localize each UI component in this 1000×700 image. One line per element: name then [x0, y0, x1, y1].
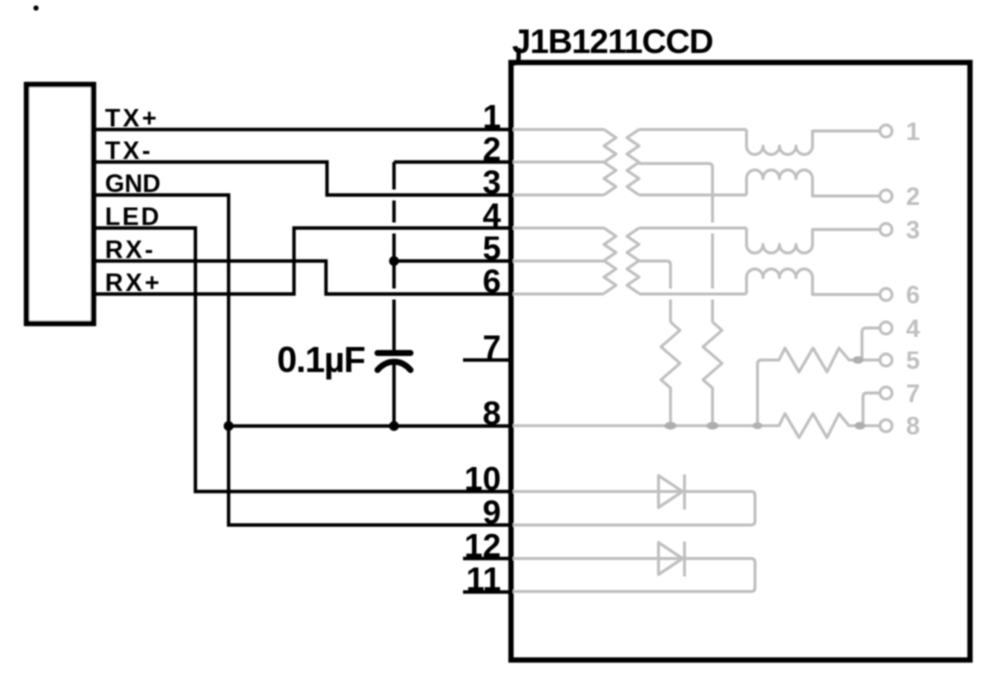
- capacitor C1 bottom curved plate: [378, 362, 411, 370]
- svg-text:11: 11: [466, 561, 501, 598]
- wire pin 2 branch: [394, 160, 512, 163]
- stray dot top-left: [33, 5, 38, 10]
- svg-text:10: 10: [464, 460, 501, 497]
- capacitor C1 0.1uF top plate: [378, 350, 411, 356]
- svg-text:1: 1: [483, 98, 501, 135]
- choke L1 top winding: [747, 130, 881, 155]
- transformer T2 primary leads: [513, 228, 604, 294]
- junction dot pin5 net: [389, 256, 399, 266]
- svg-text:J1B1211CCD: J1B1211CCD: [512, 23, 713, 61]
- svg-text:5: 5: [483, 230, 501, 267]
- terminal circle 2: [880, 190, 892, 202]
- module U1 border: [511, 63, 970, 661]
- transformer T2 secondary top lead: [639, 227, 747, 230]
- junction blob R3 feed: [753, 422, 763, 429]
- wire GND down to pin 9: [96, 195, 512, 525]
- capacitor C1 lower lead: [392, 364, 395, 426]
- terminal circle 4: [880, 322, 892, 334]
- junction blob R3 right: [853, 356, 864, 364]
- terminal circle 1: [880, 125, 892, 137]
- wire pin 11 stub: [463, 590, 512, 593]
- wire RX+ up to pin 4: [96, 228, 512, 294]
- svg-text:3: 3: [906, 217, 920, 245]
- transformer T1 secondary center tap to R2: [639, 164, 713, 323]
- terminal circle 7: [880, 387, 892, 399]
- resistor R3 branch to circle 4: [862, 328, 880, 360]
- diode D1 loop: [513, 492, 755, 526]
- terminal circle 3: [880, 224, 892, 236]
- svg-text:12: 12: [464, 527, 501, 564]
- wire vertical net x394 (pin2/pin5/cap) with crossing gaps: [392, 162, 395, 350]
- wire TX- jog to pin 3: [96, 162, 512, 195]
- terminal circle 8: [880, 420, 892, 432]
- svg-text:7: 7: [483, 329, 501, 366]
- transformer T2 secondary winding: [627, 228, 639, 293]
- choke L2 top winding: [747, 228, 881, 253]
- connector J1 body: [27, 85, 94, 324]
- junction dot cap on rail: [389, 421, 399, 431]
- diode D2 symbol: [659, 542, 685, 577]
- svg-text:3: 3: [483, 164, 501, 201]
- svg-text:1: 1: [906, 118, 920, 146]
- resistor R2 vertical: [703, 322, 722, 426]
- svg-text:5: 5: [906, 347, 920, 375]
- svg-text:6: 6: [483, 263, 501, 300]
- wire pin 8 rail: [229, 424, 512, 427]
- wire TX+ to pin 1: [96, 128, 512, 131]
- choke L2 bottom winding: [747, 269, 881, 295]
- resistor R3 horizontal with feed: [758, 348, 881, 426]
- diode D2 loop: [513, 559, 755, 592]
- svg-text:4: 4: [906, 315, 920, 343]
- transformer T2 primary winding: [604, 228, 616, 293]
- svg-text:8: 8: [906, 413, 920, 441]
- junction dot GND rail left: [224, 421, 234, 431]
- svg-text:2: 2: [906, 183, 920, 211]
- transformer T2 secondary center tap to R1: [639, 261, 671, 322]
- transformer T1 primary winding: [604, 130, 616, 195]
- svg-text:6: 6: [906, 282, 920, 310]
- terminal circle 6: [880, 289, 892, 301]
- terminal circle 5: [880, 354, 892, 366]
- junction blob R1 bottom: [665, 422, 677, 430]
- transformer T1 secondary winding: [627, 130, 639, 195]
- title J descender tail: [513, 48, 519, 64]
- svg-text:9: 9: [483, 494, 501, 531]
- transformer T2 secondary bottom lead: [639, 293, 747, 296]
- gray rail with resistor R4 horizontal to circles 7/8: [513, 414, 880, 438]
- svg-text:4: 4: [483, 197, 502, 234]
- wire LED down to pin 10: [96, 228, 512, 492]
- wire pin 12 stub: [463, 557, 512, 560]
- svg-text:2: 2: [483, 131, 501, 168]
- choke L1 bottom winding: [747, 170, 881, 196]
- transformer T1 secondary bottom lead: [639, 194, 747, 197]
- junction blob R2 bottom: [707, 422, 719, 430]
- diode D1 symbol: [659, 475, 685, 510]
- svg-text:8: 8: [483, 395, 501, 432]
- wire RX- jog to pin 6: [96, 261, 512, 294]
- resistor R4 branch to circle 7: [863, 393, 880, 426]
- svg-text:7: 7: [906, 380, 920, 408]
- svg-text:0.1µF: 0.1µF: [277, 339, 365, 380]
- resistor R1 vertical: [661, 322, 680, 426]
- wire pin 5 stub from junction: [394, 259, 512, 262]
- transformer T1 secondary top lead: [639, 128, 747, 131]
- junction blob R4 right: [855, 422, 866, 430]
- wire pin 7 stub: [463, 358, 512, 361]
- transformer T1 primary leads: [513, 130, 604, 196]
